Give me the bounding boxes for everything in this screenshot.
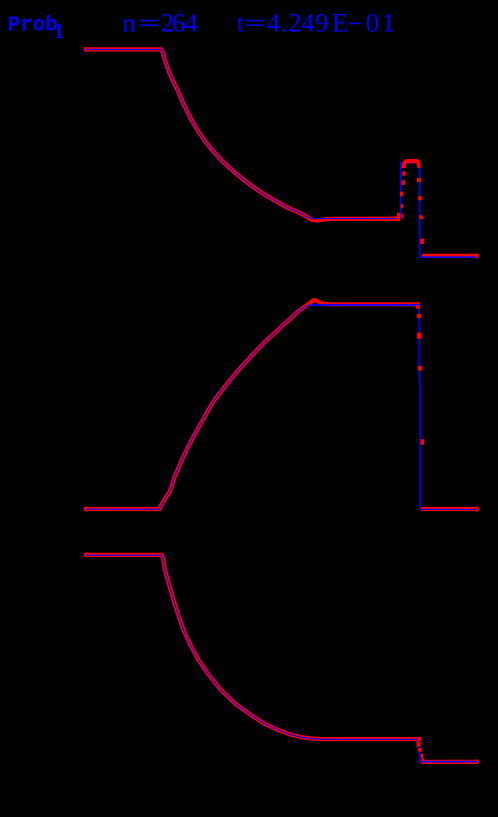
P3 left end chevron [84,552,87,557]
equals sign of t= [246,20,264,21]
P1 blue exact spike: contact vertical, top, shock vertical, right flat [401,163,478,258]
P1 red right flat [422,254,479,258]
P3 red numerical curve: left flat + descent + plateau [84,555,419,741]
equals sign of n=264 [140,20,158,21]
P2 red numerical curve: left flat + rise + plateau [84,300,418,509]
minus sign of E-01 [349,23,361,25]
P1 red dashes on contact rise [397,171,406,219]
P3 red dashes on step [417,742,424,762]
P2 red right flat [421,507,478,511]
P1 red numerical curve: left flat + rarefaction + plateau [84,49,400,220]
P2 blue exact curve: left flat + rise [84,305,311,509]
P2 blue exact plateau + shock vertical + right flat [311,305,420,509]
P3 blue shock vertical + right flat [420,741,477,762]
P1 right end chevron [476,254,478,259]
svg-text:n264: n264 [122,8,197,38]
P3 blue exact curve over red [84,555,418,739]
P1 blue exact curve over red (left flat + rarefaction + plateau) [84,50,398,219]
P2 red dashes on shock [416,305,424,445]
P1 red dashes on shock fall [417,164,424,244]
P1 red rounded spike top [404,161,419,168]
P3 red right flat [421,760,478,764]
svg-text:1: 1 [54,19,64,43]
svg-text:Prob: Prob [8,15,58,38]
P2 right end chevron [476,507,478,512]
P1 left end chevron [84,47,87,52]
P3 right end chevron [476,760,478,765]
P2 left end chevron [84,507,87,512]
